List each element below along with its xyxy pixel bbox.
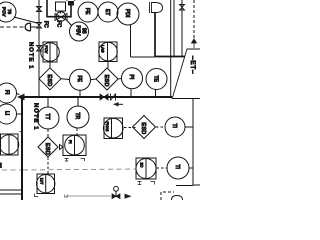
svg-text:TE: TE <box>153 76 159 83</box>
valve bowtie on x182 <box>180 5 185 11</box>
svg-text:LI: LI <box>4 111 10 115</box>
svg-text:LAG: LAG <box>101 45 105 53</box>
wire dashed ESD4 to TI <box>156 126 165 128</box>
shared display box F (PHA) <box>104 118 123 139</box>
svg-text:FI: FI <box>4 90 10 94</box>
pump/D shape on x155 <box>150 2 163 13</box>
svg-text:2C: 2C <box>140 163 144 168</box>
svg-text:PCV: PCV <box>2 7 7 17</box>
valve bowtie on main line <box>100 94 108 100</box>
dashed line to flare x194 <box>193 0 195 40</box>
svg-text:75: 75 <box>7 9 12 15</box>
main process line y97 <box>19 96 172 98</box>
svg-text:NOTE 1: NOTE 1 <box>33 103 39 131</box>
svg-text:ESD: ESD <box>103 75 109 87</box>
shared display box top B <box>99 42 117 62</box>
wire parallel line x174 <box>173 0 175 56</box>
wire link diamond2-PI <box>118 78 122 81</box>
wire thick horizontal y56.5 <box>155 56 185 58</box>
control valve FV body (globe w/ circle) <box>55 14 67 21</box>
svg-text:TI: TI <box>174 165 180 169</box>
interlock diamond ESD 3 <box>38 137 58 157</box>
wire stub <box>17 94 20 95</box>
wire TI2 to equipment line <box>189 167 193 169</box>
shared display box D (left) <box>1 134 19 155</box>
off-page connector trapezoid <box>172 49 200 99</box>
svg-text:PI: PI <box>128 75 134 80</box>
valve bowtie on x39 upper <box>37 7 42 12</box>
svg-text:LVT: LVT <box>40 178 44 185</box>
shared display box C (mid) <box>63 135 86 156</box>
svg-text:TR: TR <box>74 113 80 120</box>
svg-text:ESD: ESD <box>44 143 50 155</box>
svg-text:PSV: PSV <box>75 26 81 37</box>
svg-text:ET: ET <box>104 9 110 15</box>
shared display box E (bottom-left) <box>37 174 55 194</box>
wire thin horizontal y57 <box>131 56 156 58</box>
bracket top-right of box D <box>20 132 22 135</box>
wire leader from PCV bubble to valve <box>14 17 37 23</box>
wire leader PSV to pipe <box>66 20 72 27</box>
instrument bubble PSV 98 <box>70 22 89 41</box>
actuator square on control valve <box>56 2 66 11</box>
instrument bubble FE mid <box>70 69 91 90</box>
instrument bubble TR <box>67 106 89 128</box>
svg-text:FC: FC <box>43 21 49 28</box>
interlock diamond ESD 4 <box>133 116 156 139</box>
instrument bubble TT <box>37 107 59 129</box>
wire valve line x182 <box>181 0 183 56</box>
tag mark <box>65 195 68 198</box>
interlock diamond ESD 2 <box>96 68 118 90</box>
wire dashed TT to ESD <box>47 130 49 137</box>
shared display box top A <box>43 42 57 62</box>
check/zigzag symbol <box>111 94 116 101</box>
instrument bubble PI <box>122 68 143 89</box>
wire dashed box G to TI2 <box>157 167 167 169</box>
orifice/vent black block <box>68 1 74 6</box>
wire stem TT up <box>47 98 49 107</box>
instrument bubble PCV <box>0 2 16 22</box>
bracket marks under box C <box>65 159 69 162</box>
open arrow into box <box>60 145 64 150</box>
bracket under box E <box>35 194 39 197</box>
wire dashed horizontal mid <box>23 169 136 170</box>
svg-text:TT: TT <box>44 114 50 120</box>
wire dashed box F to ESD4 <box>124 127 137 129</box>
instrument bubble TE mid <box>146 69 167 90</box>
instrument bubble TI 2 <box>167 157 189 179</box>
wire stem box B to diamond <box>107 62 109 69</box>
wire link diamond1-FE <box>61 78 70 81</box>
shared display box G (bottom-mid) <box>136 158 156 179</box>
wire vertical elbow x47 <box>47 0 71 17</box>
wire double line bottom-left <box>0 189 22 191</box>
svg-text:ESD: ESD <box>46 75 52 87</box>
wire parallel line x171 <box>170 0 172 97</box>
valve small w/ handwheel bottom <box>114 186 119 191</box>
actuator diaphragm (mirror D) on valve PCV <box>25 23 30 31</box>
interlock diamond ESD 1 <box>39 68 61 90</box>
wire dashed ESD3 down <box>47 158 49 174</box>
svg-text:PI: PI <box>68 140 72 144</box>
svg-text:FE: FE <box>84 8 90 15</box>
wire stem FE down <box>79 90 81 97</box>
wire dashed TR to box <box>76 129 78 136</box>
wire stub LI to header <box>17 113 23 115</box>
valve bowtie PCV body <box>37 23 42 29</box>
svg-text:NOTE 1: NOTE 1 <box>28 42 34 70</box>
svg-text:98: 98 <box>81 28 87 34</box>
svg-text:TI: TI <box>171 124 177 128</box>
instrument bubble PDI <box>117 3 139 25</box>
wire riser x71 <box>70 6 72 18</box>
wire TI1 to equipment line <box>185 126 193 128</box>
instrument bubble LI left <box>0 104 17 124</box>
arrow up into connector <box>192 39 197 48</box>
wire actuator stem <box>31 26 37 28</box>
svg-text:FC: FC <box>56 21 62 28</box>
svg-text:PHA2: PHA2 <box>105 122 109 132</box>
wire stem TE down <box>155 90 157 98</box>
svg-text:PDI: PDI <box>124 9 130 17</box>
instrument bubble TI 1 <box>165 117 185 137</box>
bracket marks under box G <box>138 182 142 185</box>
flow arrow right bottom <box>125 194 132 199</box>
wire faint bottom line <box>66 195 111 197</box>
wire equipment vertical x193 <box>192 99 194 186</box>
svg-text:ESD: ESD <box>140 123 146 135</box>
valve bowtie on x39 mid <box>37 46 42 52</box>
main header vertical x22 <box>21 96 23 200</box>
wire link FE-diamond2 <box>91 78 97 81</box>
dashed pump box bottom right <box>161 192 174 200</box>
pump circle bottom right <box>172 196 183 201</box>
wire thick vertical x155 <box>154 13 156 57</box>
wire stem PI down <box>130 89 132 97</box>
svg-text:FE: FE <box>76 76 82 83</box>
wire stem from PDI down <box>130 25 132 57</box>
wire dashed horizontal left <box>2 169 21 171</box>
wire dashed signal line top-left <box>0 26 25 28</box>
black tick left edge <box>0 163 2 169</box>
svg-text:–ET–: –ET– <box>189 56 196 74</box>
wire stem TR up <box>77 98 79 106</box>
wire stem box to diamond <box>49 62 51 69</box>
svg-text:PCV: PCV <box>44 46 48 54</box>
instrument bubble FI left <box>0 83 17 103</box>
flow arrow left <box>17 94 25 101</box>
instrument bubble ET top <box>98 2 118 22</box>
wire bottom right exit <box>193 184 200 186</box>
small flow arrow left below line <box>113 102 119 106</box>
wire vertical line x39 <box>38 0 40 97</box>
instrument bubble FE top <box>78 2 98 22</box>
